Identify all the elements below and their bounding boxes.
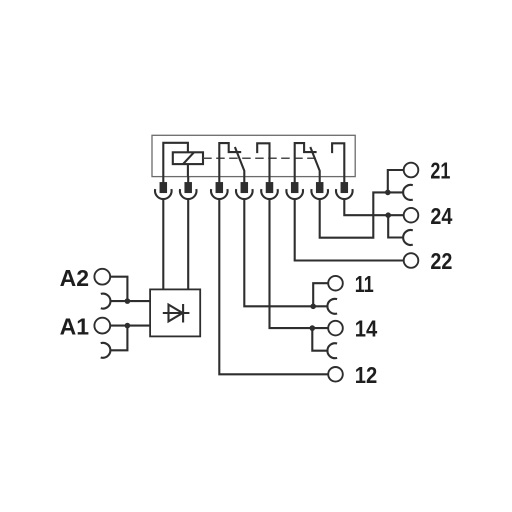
- relay module outline: [152, 135, 355, 176]
- pin 6 socket: [286, 189, 303, 199]
- terminal 24: [404, 208, 419, 223]
- wire pin 7 to terminal 21: [320, 192, 404, 237]
- wire pin 8 to terminal 24: [344, 199, 404, 215]
- terminal A1: [94, 318, 110, 334]
- diode V1 cathode bar: [182, 304, 184, 323]
- wire pin 5 to terminal 14: [270, 199, 329, 328]
- wire pin 3 to terminal 12: [219, 199, 328, 374]
- junction pin7/21: [385, 190, 391, 196]
- terminal 24 aux socket: [403, 230, 413, 245]
- pin 4 socket: [236, 189, 253, 199]
- junction pin8/24: [385, 212, 391, 218]
- svg-text:22: 22: [430, 248, 452, 274]
- terminal 11: [328, 276, 343, 291]
- pin 7 socket: [311, 189, 328, 199]
- pin 2 plug: [187, 177, 189, 184]
- svg-text:24: 24: [430, 203, 452, 229]
- pin 7 plug: [319, 177, 321, 184]
- svg-text:11: 11: [355, 271, 374, 297]
- pin 1 plug: [162, 177, 164, 184]
- contact 1 NO fixed contact (pin 5): [257, 143, 269, 176]
- wire terminal 24 aux drop: [388, 215, 403, 237]
- svg-text:A1: A1: [60, 313, 90, 339]
- terminal A2: [94, 269, 110, 285]
- wire A1 to protection module: [110, 325, 150, 327]
- terminal 14: [328, 321, 343, 336]
- contact 2 NO fixed contact (pin 8): [332, 143, 344, 176]
- contact 2 moving blade (pin 7, common): [310, 147, 319, 177]
- terminal 12: [328, 367, 343, 382]
- contact 2 NC fixed contact (pin 6): [295, 143, 317, 177]
- wire coil feed from pin 1: [163, 143, 188, 177]
- pin 8 socket: [336, 189, 353, 199]
- diode V1 triangle: [169, 305, 183, 322]
- pin 5 socket: [261, 189, 278, 199]
- junction A1: [125, 323, 131, 329]
- mechanical linkage (dashed): [203, 157, 316, 159]
- protection module box: [150, 289, 200, 336]
- terminal A2 aux socket: [101, 294, 111, 309]
- diode V1 anode lead: [163, 312, 190, 314]
- relay coil K1: [173, 152, 203, 164]
- junction pin4/11: [310, 304, 316, 310]
- svg-text:21: 21: [430, 158, 450, 184]
- junction A2: [125, 298, 131, 304]
- pin 3 socket: [211, 189, 228, 199]
- wire terminal 14 aux drop: [312, 328, 328, 351]
- terminal A1 aux socket: [101, 343, 111, 358]
- coil diagonal: [183, 152, 194, 164]
- wire pin 6 to terminal 22: [295, 199, 404, 260]
- terminal 14 aux socket: [327, 343, 337, 358]
- pin 8 plug: [343, 177, 345, 184]
- wire A1 aux drop: [110, 326, 127, 351]
- pin 4 plug: [243, 177, 245, 184]
- wire A2 to junction: [110, 277, 127, 301]
- wire A2 aux to protection module: [111, 300, 151, 302]
- wire terminal 11 drop: [313, 283, 328, 306]
- pin 5 plug: [268, 177, 270, 184]
- terminal 21: [404, 163, 419, 178]
- contact 1 NC fixed contact (pin 3): [219, 143, 241, 177]
- pin 1 socket: [155, 189, 172, 199]
- terminal 22: [404, 253, 419, 268]
- wire pin 1 to protection module: [162, 199, 164, 289]
- pin 2 socket: [180, 189, 197, 199]
- svg-text:A2: A2: [60, 265, 89, 291]
- pin 6 plug: [294, 177, 296, 184]
- wire coil to pin 2: [187, 164, 189, 177]
- pin 3 plug: [218, 177, 220, 184]
- wire terminal 21 drop: [388, 170, 404, 192]
- wire pin 4 to terminal 11: [244, 199, 327, 306]
- svg-text:14: 14: [355, 316, 378, 342]
- wire pin 2 to protection module: [187, 199, 189, 289]
- contact 1 moving blade (pin 4, common): [235, 147, 244, 177]
- terminal 21 aux socket: [403, 185, 413, 200]
- terminal 11 aux socket: [327, 299, 337, 314]
- junction pin5/14: [310, 325, 316, 331]
- svg-text:12: 12: [355, 362, 378, 388]
